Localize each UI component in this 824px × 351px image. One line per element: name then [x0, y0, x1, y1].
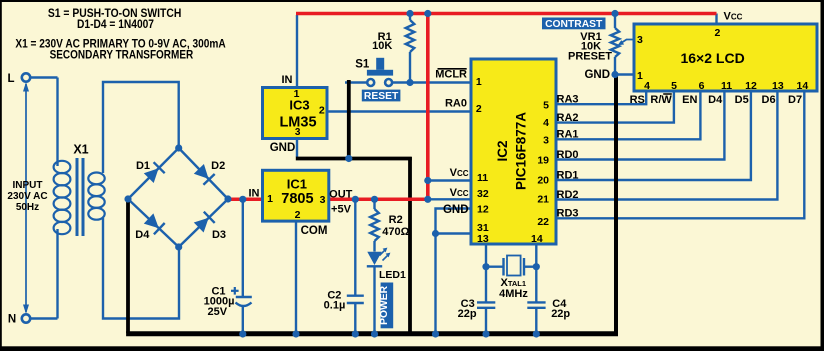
svg-text:RD0: RD0 — [557, 149, 579, 161]
svg-text:RD1: RD1 — [557, 169, 579, 181]
svg-text:IC3: IC3 — [289, 97, 309, 112]
svg-text:470Ω: 470Ω — [382, 226, 409, 238]
svg-text:RS: RS — [630, 94, 645, 106]
svg-text:0.1µ: 0.1µ — [324, 300, 346, 312]
svg-text:COM: COM — [301, 225, 328, 237]
svg-text:+5V: +5V — [331, 203, 352, 215]
svg-text:POWER: POWER — [379, 285, 390, 324]
svg-text:VCC: VCC — [450, 187, 469, 199]
svg-text:5: 5 — [671, 80, 677, 92]
svg-text:2: 2 — [476, 103, 482, 115]
svg-text:13: 13 — [477, 233, 489, 245]
svg-text:4: 4 — [644, 80, 650, 92]
svg-text:RA1: RA1 — [557, 129, 579, 141]
svg-text:21: 21 — [537, 194, 549, 206]
svg-text:N: N — [8, 314, 16, 326]
svg-text:D1-D4 = 1N4007: D1-D4 = 1N4007 — [77, 19, 154, 31]
svg-text:5: 5 — [543, 100, 549, 112]
svg-text:D1: D1 — [136, 160, 150, 172]
svg-text:6: 6 — [699, 80, 705, 92]
svg-text:R/W: R/W — [650, 94, 672, 106]
svg-text:RA3: RA3 — [557, 94, 579, 106]
svg-text:12: 12 — [477, 204, 489, 216]
svg-text:D2: D2 — [211, 160, 225, 172]
svg-text:X1: X1 — [73, 142, 88, 156]
svg-text:11: 11 — [721, 80, 732, 92]
svg-text:RD2: RD2 — [557, 189, 579, 201]
svg-text:25V: 25V — [208, 306, 228, 318]
svg-text:14: 14 — [797, 80, 809, 92]
svg-text:D5: D5 — [735, 94, 749, 106]
svg-text:S1 = PUSH-TO-ON SWITCH: S1 = PUSH-TO-ON SWITCH — [48, 8, 181, 20]
svg-text:10K: 10K — [372, 40, 392, 52]
svg-text:GND: GND — [443, 204, 469, 216]
svg-text:3: 3 — [320, 194, 326, 206]
svg-text:16×2 LCD: 16×2 LCD — [680, 50, 744, 66]
svg-text:S1: S1 — [355, 58, 370, 70]
svg-text:11: 11 — [477, 172, 488, 184]
svg-text:12: 12 — [745, 80, 757, 92]
svg-text:50Hz: 50Hz — [16, 202, 39, 213]
svg-text:SECONDARY TRANSFORMER: SECONDARY TRANSFORMER — [50, 50, 194, 62]
svg-text:LED1: LED1 — [379, 269, 406, 281]
svg-text:RA2: RA2 — [557, 112, 579, 124]
svg-text:MCLR: MCLR — [435, 69, 467, 81]
svg-text:230V AC: 230V AC — [7, 191, 47, 202]
svg-text:RA0: RA0 — [445, 97, 467, 109]
svg-text:20: 20 — [537, 175, 549, 187]
svg-text:22p: 22p — [458, 308, 477, 320]
svg-text:19: 19 — [537, 155, 549, 167]
svg-text:IN: IN — [282, 74, 293, 86]
svg-text:RD3: RD3 — [557, 208, 579, 220]
svg-text:3: 3 — [637, 34, 643, 46]
svg-text:PIC16F877A: PIC16F877A — [514, 112, 529, 190]
svg-text:VCC: VCC — [724, 10, 743, 22]
svg-text:IN: IN — [249, 187, 260, 199]
svg-text:1: 1 — [267, 193, 273, 205]
svg-text:INPUT: INPUT — [13, 180, 43, 191]
svg-text:RESET: RESET — [364, 91, 399, 102]
svg-text:22p: 22p — [551, 308, 570, 320]
svg-text:GND: GND — [270, 142, 296, 154]
svg-text:1: 1 — [294, 88, 300, 100]
svg-text:L: L — [7, 73, 14, 85]
svg-text:3: 3 — [295, 127, 301, 138]
svg-text:1: 1 — [637, 70, 643, 82]
svg-text:VCC: VCC — [450, 167, 469, 179]
svg-text:D7: D7 — [788, 94, 802, 106]
svg-text:2: 2 — [319, 105, 325, 117]
svg-text:1: 1 — [476, 76, 482, 88]
svg-text:OUT: OUT — [329, 188, 353, 200]
svg-text:PRESET: PRESET — [568, 50, 612, 62]
svg-text:14: 14 — [531, 233, 543, 245]
svg-text:D3: D3 — [212, 229, 226, 241]
svg-text:EN: EN — [682, 94, 697, 106]
svg-text:32: 32 — [477, 188, 489, 200]
svg-text:3: 3 — [543, 135, 549, 147]
svg-text:13: 13 — [772, 80, 784, 92]
svg-text:2: 2 — [714, 27, 720, 39]
svg-text:IC1: IC1 — [287, 176, 307, 191]
svg-text:4MHz: 4MHz — [499, 288, 528, 300]
svg-text:GND: GND — [584, 69, 610, 81]
svg-text:4: 4 — [543, 117, 549, 129]
svg-text:7805: 7805 — [281, 191, 313, 207]
svg-text:2: 2 — [295, 209, 301, 221]
svg-text:D6: D6 — [762, 94, 776, 106]
svg-text:IC2: IC2 — [495, 140, 510, 161]
svg-text:R2: R2 — [389, 214, 403, 226]
svg-text:22: 22 — [537, 216, 549, 228]
svg-text:CONTRAST: CONTRAST — [545, 19, 603, 30]
svg-text:D4: D4 — [708, 94, 723, 106]
svg-text:D4: D4 — [135, 229, 150, 241]
